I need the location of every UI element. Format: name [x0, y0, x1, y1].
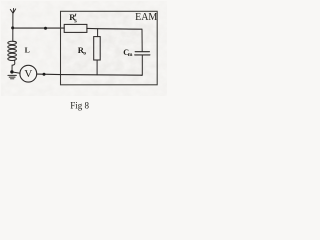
wire L bottom lead — [12, 60, 15, 71]
node B — [10, 70, 13, 73]
port dot bottom — [43, 73, 46, 76]
inductor L coil — [8, 41, 17, 60]
port dot top — [44, 27, 47, 30]
resistor Rs' body — [64, 24, 87, 32]
svg-text:V: V — [24, 68, 32, 80]
wire Ro top lead — [97, 29, 99, 37]
svg-text:o: o — [83, 50, 86, 56]
scan texture — [1, 1, 167, 96]
wire bottom rail — [37, 74, 142, 75]
svg-text:Fig 8: Fig 8 — [70, 100, 89, 110]
paper background — [0, 0, 168, 120]
wire top rail to box — [13, 27, 64, 29]
svg-text:L: L — [25, 46, 30, 55]
EAM box — [61, 11, 158, 85]
wire Ro bottom lead — [96, 60, 98, 75]
svg-text:m: m — [128, 52, 133, 58]
wire node B to voltmeter — [13, 72, 20, 73]
antenna — [10, 9, 15, 14]
capacitor Cm top lead — [141, 29, 143, 51]
voltmeter V — [20, 65, 37, 82]
capacitor Cm bottom lead — [141, 55, 142, 75]
resistor Ro body — [94, 37, 101, 60]
wire Rs' right lead — [87, 27, 142, 30]
ground — [8, 75, 17, 78]
capacitor Cm bottom plate — [135, 54, 150, 56]
capacitor Cm top plate — [135, 51, 149, 53]
svg-text:EAM: EAM — [135, 12, 157, 23]
node A — [11, 26, 14, 29]
wire antenna stem — [12, 13, 14, 42]
